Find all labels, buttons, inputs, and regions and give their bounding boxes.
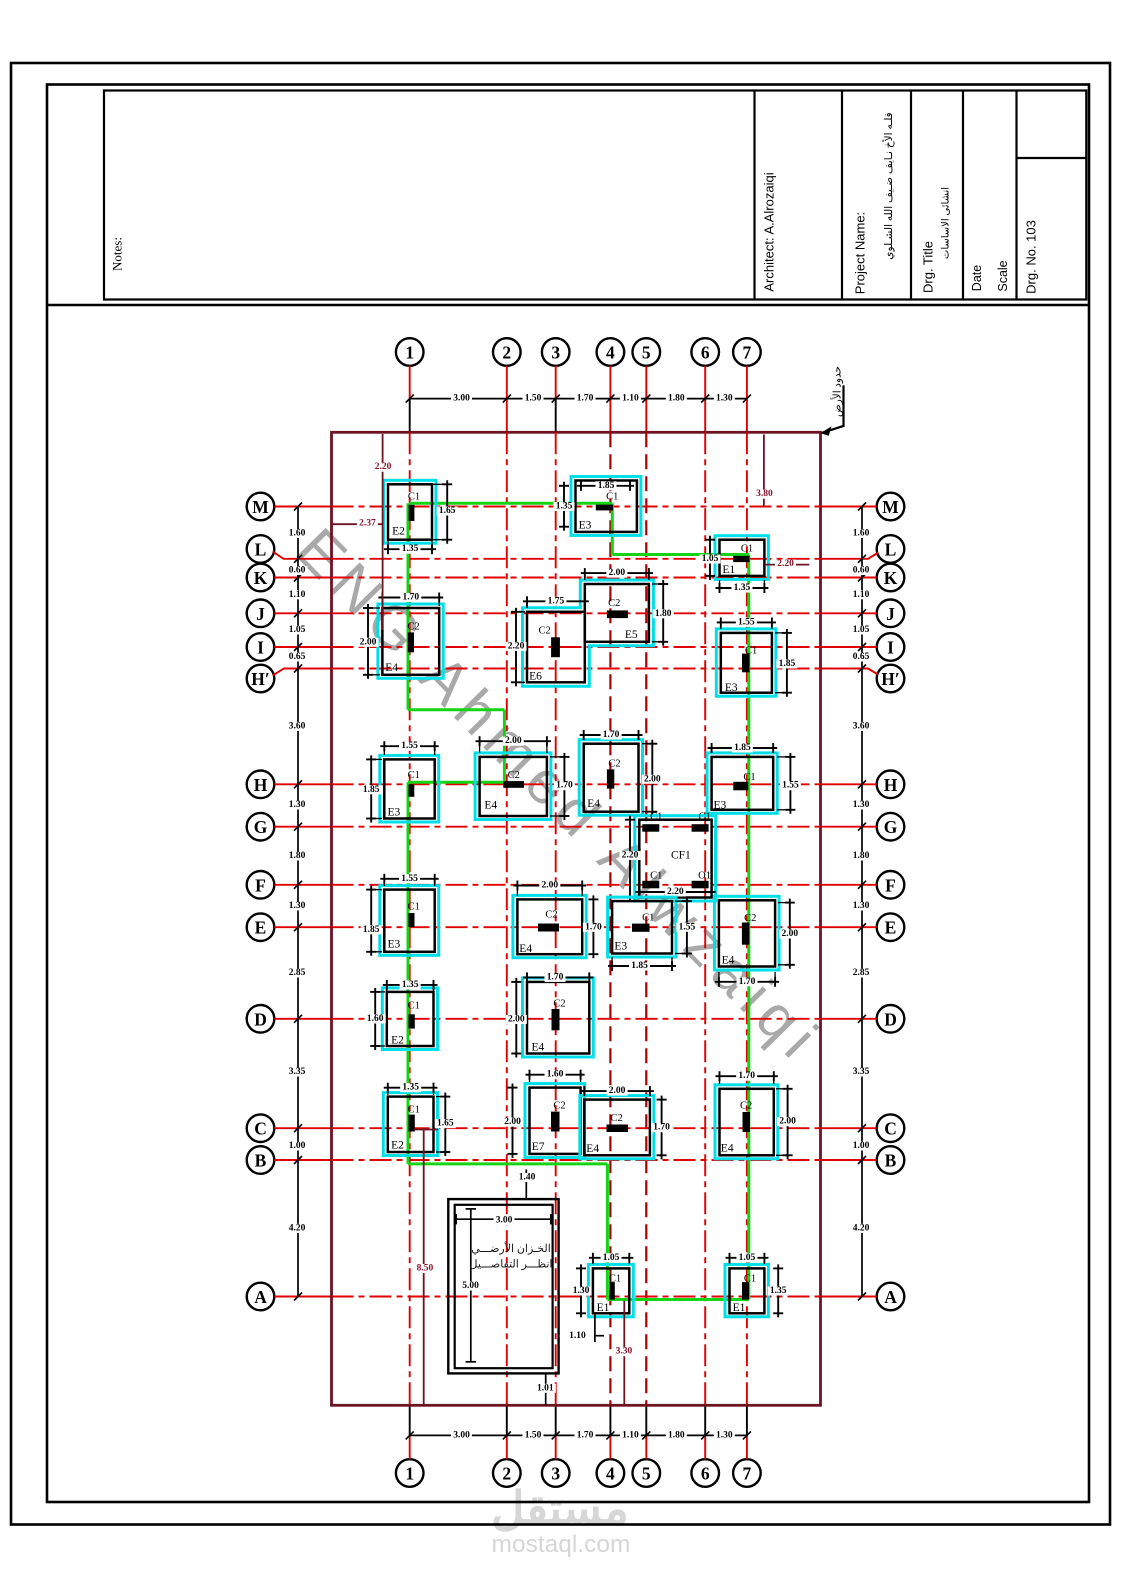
svg-text:H: H	[254, 775, 268, 795]
right chain dim 0.60	[851, 566, 872, 575]
svg-text:E3: E3	[714, 800, 727, 812]
svg-text:E4: E4	[385, 662, 398, 674]
dim 2.00 left of D-E4	[506, 978, 527, 1058]
svg-text:0.60: 0.60	[853, 566, 870, 576]
column 5 bottom stub	[645, 1405, 647, 1459]
svg-text:C2: C2	[740, 1101, 752, 1112]
left chain dim 3.60	[287, 722, 308, 731]
green tie beam jog beam vertical	[503, 710, 506, 783]
svg-text:1.10: 1.10	[569, 1331, 586, 1341]
svg-text:I: I	[257, 638, 264, 658]
svg-text:G: G	[254, 817, 268, 837]
svg-text:1.05: 1.05	[853, 625, 870, 635]
column 7 bottom stub	[746, 1405, 748, 1459]
green tie beam col4 beam lower	[606, 1164, 609, 1300]
svg-text:1.70: 1.70	[547, 972, 564, 982]
svg-text:انشائى الاساسات: انشائى الاساسات	[941, 187, 952, 259]
green tie beam col4 drop beam	[611, 503, 614, 554]
svg-text:3.35: 3.35	[853, 1067, 870, 1077]
row I right stub	[821, 646, 877, 648]
svg-text:1.40: 1.40	[519, 1173, 536, 1183]
svg-text:1.05: 1.05	[739, 1253, 756, 1263]
row C left stub	[274, 1127, 331, 1129]
maroon dim 3.30	[613, 1301, 634, 1405]
svg-text:C2: C2	[538, 626, 550, 637]
left chain dim 4.20	[287, 1224, 308, 1233]
grid bubble column 7 top	[733, 338, 761, 366]
column 3 top stub	[555, 366, 557, 433]
svg-text:1.55: 1.55	[782, 781, 799, 791]
row J right stub	[821, 612, 877, 614]
bottom chain dim 1.50	[523, 1431, 544, 1440]
grid bubble row H right	[877, 771, 905, 799]
grid bubble row D left	[247, 1005, 275, 1033]
svg-text:M: M	[252, 497, 269, 517]
svg-text:1.60: 1.60	[367, 1014, 384, 1024]
svg-text:1.55: 1.55	[401, 874, 418, 884]
dim 1.10 below A-E1c4	[567, 1313, 604, 1342]
grid line row K	[332, 577, 821, 579]
svg-text:E3: E3	[725, 682, 738, 694]
svg-text:2.00: 2.00	[781, 929, 798, 939]
svg-text:5.00: 5.00	[462, 1281, 479, 1291]
grid bubble row A left	[247, 1283, 275, 1311]
right chain dim 3.60	[851, 722, 872, 731]
grid bubble column 7 bottom	[733, 1459, 761, 1487]
svg-text:1.80: 1.80	[853, 851, 870, 861]
bottom chain dim 3.00	[451, 1431, 472, 1440]
maroon dim 2.37	[332, 519, 383, 529]
svg-text:1.05: 1.05	[289, 625, 306, 635]
svg-text:E3: E3	[388, 806, 401, 818]
dim 1.35 above D-E2	[383, 980, 438, 992]
svg-text:1.35: 1.35	[556, 502, 573, 512]
svg-text:2: 2	[502, 1464, 511, 1484]
left chain dim 1.30	[287, 901, 308, 910]
title block dividers	[755, 91, 1087, 300]
footing CF1	[635, 812, 716, 901]
grid bubble row H' left	[247, 665, 275, 693]
footing E3 (E3r)	[608, 897, 676, 957]
svg-text:1.30: 1.30	[289, 901, 306, 911]
row I left stub	[274, 646, 331, 648]
right chain dim 1.60	[851, 529, 872, 538]
svg-text:1.85: 1.85	[363, 925, 380, 935]
dim 2.00 left of C-E7	[502, 1084, 523, 1158]
svg-text:C2: C2	[407, 622, 419, 633]
svg-text:1.55: 1.55	[738, 617, 755, 627]
svg-text:1.35: 1.35	[402, 980, 419, 990]
svg-text:1.65: 1.65	[439, 506, 456, 516]
svg-text:1.85: 1.85	[631, 961, 648, 971]
grid bubble column 5 bottom	[633, 1459, 661, 1487]
dim 1.05 left of E1	[700, 536, 721, 580]
row G right stub	[821, 826, 877, 828]
right chain dim 4.20	[851, 1224, 872, 1233]
row H' right stub	[821, 669, 879, 675]
svg-text:1.80: 1.80	[655, 609, 672, 619]
svg-text:2.00: 2.00	[644, 774, 661, 784]
svg-text:Notes:: Notes:	[110, 237, 125, 271]
row B left stub	[274, 1159, 331, 1161]
svg-text:Drg. Title: Drg. Title	[921, 241, 936, 293]
column 1 top stub	[409, 366, 411, 433]
svg-text:1.01: 1.01	[537, 1383, 554, 1393]
dim 1.01 below tank	[535, 1373, 556, 1405]
grid bubble row K right	[877, 564, 905, 592]
svg-text:L: L	[885, 540, 897, 560]
svg-text:O1: O1	[698, 871, 711, 882]
grid bubble row F left	[247, 871, 275, 899]
dim 1.35 above C-E2	[384, 1083, 438, 1095]
svg-text:2.00: 2.00	[609, 568, 626, 578]
grid line row J	[332, 612, 821, 614]
svg-text:C2: C2	[610, 1113, 622, 1124]
dim 1.55 right of H4-E3	[777, 753, 801, 814]
svg-text:1.80: 1.80	[668, 394, 685, 404]
svg-text:5: 5	[642, 343, 651, 363]
svg-text:2.20: 2.20	[375, 462, 392, 472]
svg-text:1.70: 1.70	[577, 394, 594, 404]
svg-text:3: 3	[551, 343, 560, 363]
green tie beam col7 beam	[747, 555, 750, 1300]
row H left stub	[274, 783, 331, 785]
dim 2.00 right of C-E4c67	[776, 1085, 798, 1160]
svg-text:1.10: 1.10	[853, 590, 870, 600]
svg-text:3.35: 3.35	[289, 1067, 306, 1077]
green tie beam jog beam horizontal	[408, 708, 504, 711]
green tie beam row L beam	[612, 553, 749, 556]
dim 1.70 right of E-E4	[583, 895, 604, 958]
dim 1.85 left of E-col1	[361, 886, 382, 956]
svg-text:1.30: 1.30	[716, 1430, 733, 1440]
svg-text:2.00: 2.00	[779, 1117, 796, 1127]
column 4 bottom stub	[609, 1405, 611, 1459]
dim 1.70 above E4	[378, 593, 443, 607]
svg-text:1.70: 1.70	[402, 593, 419, 603]
row B right stub	[821, 1159, 877, 1161]
footing E1 (A1)	[588, 1264, 633, 1316]
svg-text:K: K	[884, 568, 898, 588]
right chain dim 0.65	[851, 652, 872, 661]
svg-text:0.65: 0.65	[853, 652, 870, 662]
top chain dim 1.30	[714, 394, 735, 403]
row L left stub	[273, 552, 332, 559]
grid bubble column 4 top	[597, 338, 625, 366]
svg-text:1.80: 1.80	[668, 1430, 685, 1440]
svg-text:C1: C1	[609, 1274, 621, 1285]
svg-text:C1: C1	[741, 544, 753, 555]
footing E1 (A2)	[725, 1264, 768, 1316]
svg-text:1.05: 1.05	[702, 554, 719, 564]
svg-text:I: I	[887, 638, 894, 658]
maroon dim text 2.20 top-left	[373, 463, 394, 472]
maroon dim 2.20 right of E1	[764, 559, 809, 569]
grid bubble row E left	[247, 913, 275, 941]
svg-text:E1: E1	[597, 1302, 610, 1314]
grid line column 5	[645, 432, 647, 1405]
row F right stub	[821, 884, 877, 886]
svg-text:1.35: 1.35	[402, 544, 419, 554]
svg-text:1.50: 1.50	[525, 394, 542, 404]
grid bubble column 3 bottom	[542, 1459, 570, 1487]
grid bubble row B right	[877, 1146, 905, 1174]
svg-text:انظـــر التفاصـــيل: انظـــر التفاصـــيل	[470, 1259, 553, 1271]
left chain dim 0.65	[287, 652, 308, 661]
grid line row I	[332, 646, 821, 648]
row M right stub	[821, 506, 877, 508]
dim 1.55 above E-col1	[380, 874, 438, 886]
svg-text:1.65: 1.65	[437, 1119, 454, 1129]
svg-text:مستقل: مستقل	[491, 1482, 629, 1534]
svg-text:M: M	[882, 497, 899, 517]
svg-text:1: 1	[405, 1464, 414, 1484]
svg-text:CF1: CF1	[671, 850, 691, 862]
dim 1.70 above C-E4c67	[716, 1071, 778, 1084]
footing E4 (C3f)	[580, 1096, 654, 1159]
grid bubble row E right	[877, 913, 905, 941]
svg-text:E4: E4	[532, 1042, 545, 1054]
left chain dim 3.35	[287, 1067, 308, 1076]
svg-text:1.30: 1.30	[289, 800, 306, 810]
right chain dim 1.80	[851, 851, 872, 860]
svg-text:L: L	[255, 540, 267, 560]
svg-text:1.00: 1.00	[289, 1141, 306, 1151]
row C right stub	[821, 1127, 877, 1129]
svg-text:C1: C1	[642, 912, 654, 923]
dim 2.20 left of CF1	[620, 816, 641, 902]
svg-text:D: D	[884, 1009, 897, 1029]
dim 1.35 below E1	[716, 580, 769, 593]
plan boundary (land border)	[332, 432, 821, 1405]
svg-text:1.80: 1.80	[289, 851, 306, 861]
svg-text:1.60: 1.60	[289, 529, 306, 539]
dim 2.00 above H-E4	[476, 736, 551, 753]
svg-text:0.60: 0.60	[289, 566, 306, 576]
green tie beam col1 beam upper	[407, 503, 410, 710]
row L right stub	[821, 553, 879, 559]
column 2 top stub	[506, 366, 508, 433]
svg-text:1.35: 1.35	[402, 1083, 419, 1093]
footing E2 (D1)	[382, 988, 437, 1050]
right chain dim 1.30	[851, 800, 872, 809]
dim 2.00 above E-E4	[513, 881, 586, 897]
grid line row A	[332, 1296, 821, 1298]
maroon dim line 2.20/2.37 witness	[382, 434, 384, 630]
svg-text:2.85: 2.85	[289, 968, 306, 978]
grid bubble row D right	[877, 1005, 905, 1033]
top chain dim 1.80	[666, 394, 687, 403]
svg-text:K: K	[254, 568, 268, 588]
svg-text:3.80: 3.80	[756, 489, 773, 499]
top dimension chain	[406, 395, 751, 403]
green tie beam row M beam	[410, 502, 613, 505]
footing E6 (E6)	[527, 612, 585, 683]
svg-text:Project Name:: Project Name:	[853, 212, 868, 294]
row G left stub	[274, 826, 331, 828]
dim 1.60 above C-E7	[526, 1070, 585, 1082]
grid bubble row M left	[247, 493, 275, 521]
footing E7 (C2f)	[525, 1084, 585, 1158]
footing E2 (C1f)	[383, 1093, 437, 1156]
svg-text:3.00: 3.00	[453, 1430, 470, 1440]
row D right stub	[821, 1018, 877, 1020]
column 6 bottom stub	[704, 1405, 706, 1459]
svg-text:C2: C2	[545, 909, 557, 920]
footing E3 (H1)	[380, 755, 439, 822]
bottom chain dim 1.30	[714, 1431, 735, 1440]
right chain dim 1.10	[851, 590, 872, 599]
footing E5 (E5)	[585, 584, 649, 642]
svg-text:C: C	[884, 1119, 897, 1139]
column 1 bottom stub	[409, 1405, 411, 1459]
svg-text:1.85: 1.85	[779, 659, 796, 669]
footing E4 (E4r)	[714, 896, 779, 970]
footing E3 (I1)	[716, 629, 776, 696]
dim 1.65 right of E2	[433, 480, 458, 543]
svg-text:2.20: 2.20	[508, 641, 525, 651]
dim 1.05 above A-E1c7	[726, 1253, 769, 1264]
left chain dim 1.80	[287, 851, 308, 860]
dim 1.85 right of I-E3	[775, 629, 797, 697]
grid bubble row B left	[247, 1146, 275, 1174]
svg-text:1.30: 1.30	[716, 394, 733, 404]
svg-text:3.30: 3.30	[616, 1347, 633, 1357]
svg-text:C1: C1	[408, 1105, 420, 1116]
footing E4 (C4f)	[715, 1085, 778, 1159]
svg-text:C1: C1	[744, 1274, 756, 1285]
svg-text:E7: E7	[532, 1141, 545, 1153]
dim 1.35 left of E3	[554, 482, 575, 531]
svg-text:1.00: 1.00	[853, 1141, 870, 1151]
grid bubble row L right	[877, 535, 905, 563]
svg-text:2.00: 2.00	[360, 637, 377, 647]
footing E6+E5 cyan outline	[523, 580, 654, 686]
row H right stub	[821, 783, 877, 785]
row J left stub	[274, 612, 331, 614]
right dimension chain	[858, 503, 866, 1301]
svg-text:E4: E4	[587, 798, 600, 810]
svg-text:F: F	[255, 875, 266, 895]
dim 1.75 above E6	[523, 596, 589, 608]
svg-text:C1: C1	[408, 1001, 420, 1012]
svg-text:1: 1	[405, 343, 414, 363]
svg-text:7: 7	[743, 1464, 752, 1484]
grid line column 3	[555, 432, 557, 1405]
dim 1.40 above tank	[517, 1169, 538, 1199]
left chain dim 1.60	[287, 529, 308, 538]
svg-text:Drg. No. 103: Drg. No. 103	[1024, 220, 1039, 294]
svg-text:1.70: 1.70	[738, 1071, 755, 1081]
green tie beam row B beam	[408, 1162, 607, 1165]
grid bubble row I left	[247, 633, 275, 661]
dim 1.70 right of H-E4	[550, 753, 575, 820]
green tie beam row A beam	[607, 1298, 748, 1301]
column 3 bottom stub	[555, 1405, 557, 1459]
svg-text:C1: C1	[606, 492, 618, 503]
svg-text:H: H	[884, 775, 898, 795]
dim 1.85 above H4-E3	[708, 743, 778, 753]
grid bubble column 4 bottom	[597, 1459, 625, 1487]
tank inner wall	[455, 1205, 553, 1368]
svg-text:1.35: 1.35	[734, 583, 751, 593]
left chain dim 1.30	[287, 800, 308, 809]
svg-text:1.30: 1.30	[853, 901, 870, 911]
grid line row F	[332, 884, 821, 886]
svg-text:2.20: 2.20	[777, 559, 794, 569]
svg-text:C1: C1	[408, 902, 420, 913]
svg-text:2: 2	[502, 343, 511, 363]
row F left stub	[274, 884, 331, 886]
svg-text:1.05: 1.05	[603, 1253, 620, 1263]
left chain dim 1.10	[287, 590, 308, 599]
svg-text:C1: C1	[650, 812, 662, 823]
band bottom full-width line	[47, 304, 1089, 306]
svg-text:J: J	[256, 604, 265, 624]
svg-text:3.60: 3.60	[853, 721, 870, 731]
svg-text:E6: E6	[529, 670, 542, 682]
svg-text:1.70: 1.70	[585, 922, 602, 932]
bottom chain dim 1.80	[666, 1431, 687, 1440]
svg-text:E2: E2	[391, 1035, 404, 1047]
svg-text:A: A	[884, 1287, 897, 1307]
svg-text:2.20: 2.20	[667, 887, 684, 897]
footing E2 (M1)	[384, 480, 437, 543]
row K right stub	[821, 577, 877, 579]
grid bubble column 2 top	[493, 338, 521, 366]
svg-text:الخـزان الأرضـــي: الخـزان الأرضـــي	[471, 1241, 551, 1255]
left chain dim 2.85	[287, 968, 308, 977]
svg-text:C1: C1	[408, 770, 420, 781]
grid line row E	[332, 926, 821, 928]
svg-text:1.70: 1.70	[556, 781, 573, 791]
svg-text:Date: Date	[970, 265, 984, 291]
grid bubble row F right	[877, 871, 905, 899]
grid line column 7	[746, 432, 748, 1405]
right chain dim 1.30	[851, 901, 872, 910]
grid bubble row I right	[877, 633, 905, 661]
row A right stub	[821, 1296, 877, 1298]
dim 2.00 above C-E4	[580, 1086, 654, 1096]
svg-text:1.70: 1.70	[653, 1123, 670, 1133]
top chain dim 1.50	[523, 394, 544, 403]
dim 2.00 right of E-E4c7	[778, 899, 800, 969]
svg-text:1.50: 1.50	[525, 1430, 542, 1440]
svg-text:J: J	[886, 604, 895, 624]
grid bubble row H left	[247, 771, 275, 799]
dim 1.55 above H-E3	[380, 741, 438, 755]
footing E3 (F1)	[380, 886, 439, 956]
svg-text:E4: E4	[519, 943, 532, 955]
grid bubble row H' right	[877, 665, 905, 693]
svg-text:2.00: 2.00	[505, 736, 522, 746]
dim 1.35 right of A-E1c7	[768, 1264, 789, 1317]
tank dim 5.00	[460, 1209, 481, 1362]
grid line column 4	[609, 432, 611, 1405]
svg-text:E: E	[255, 918, 267, 938]
dim 1.55 right of E-E3	[675, 897, 697, 957]
svg-text:C2: C2	[608, 598, 620, 609]
grid line row H'	[332, 668, 821, 670]
svg-text:G: G	[884, 817, 898, 837]
maroon dim 8.50	[414, 1130, 438, 1405]
left dimension chain	[294, 503, 302, 1301]
footing E4 (J1)	[378, 604, 443, 678]
right chain dim 3.35	[851, 1067, 872, 1076]
svg-text:2.00: 2.00	[609, 1086, 626, 1096]
svg-text:6: 6	[701, 343, 710, 363]
svg-text:3.00: 3.00	[496, 1216, 513, 1226]
